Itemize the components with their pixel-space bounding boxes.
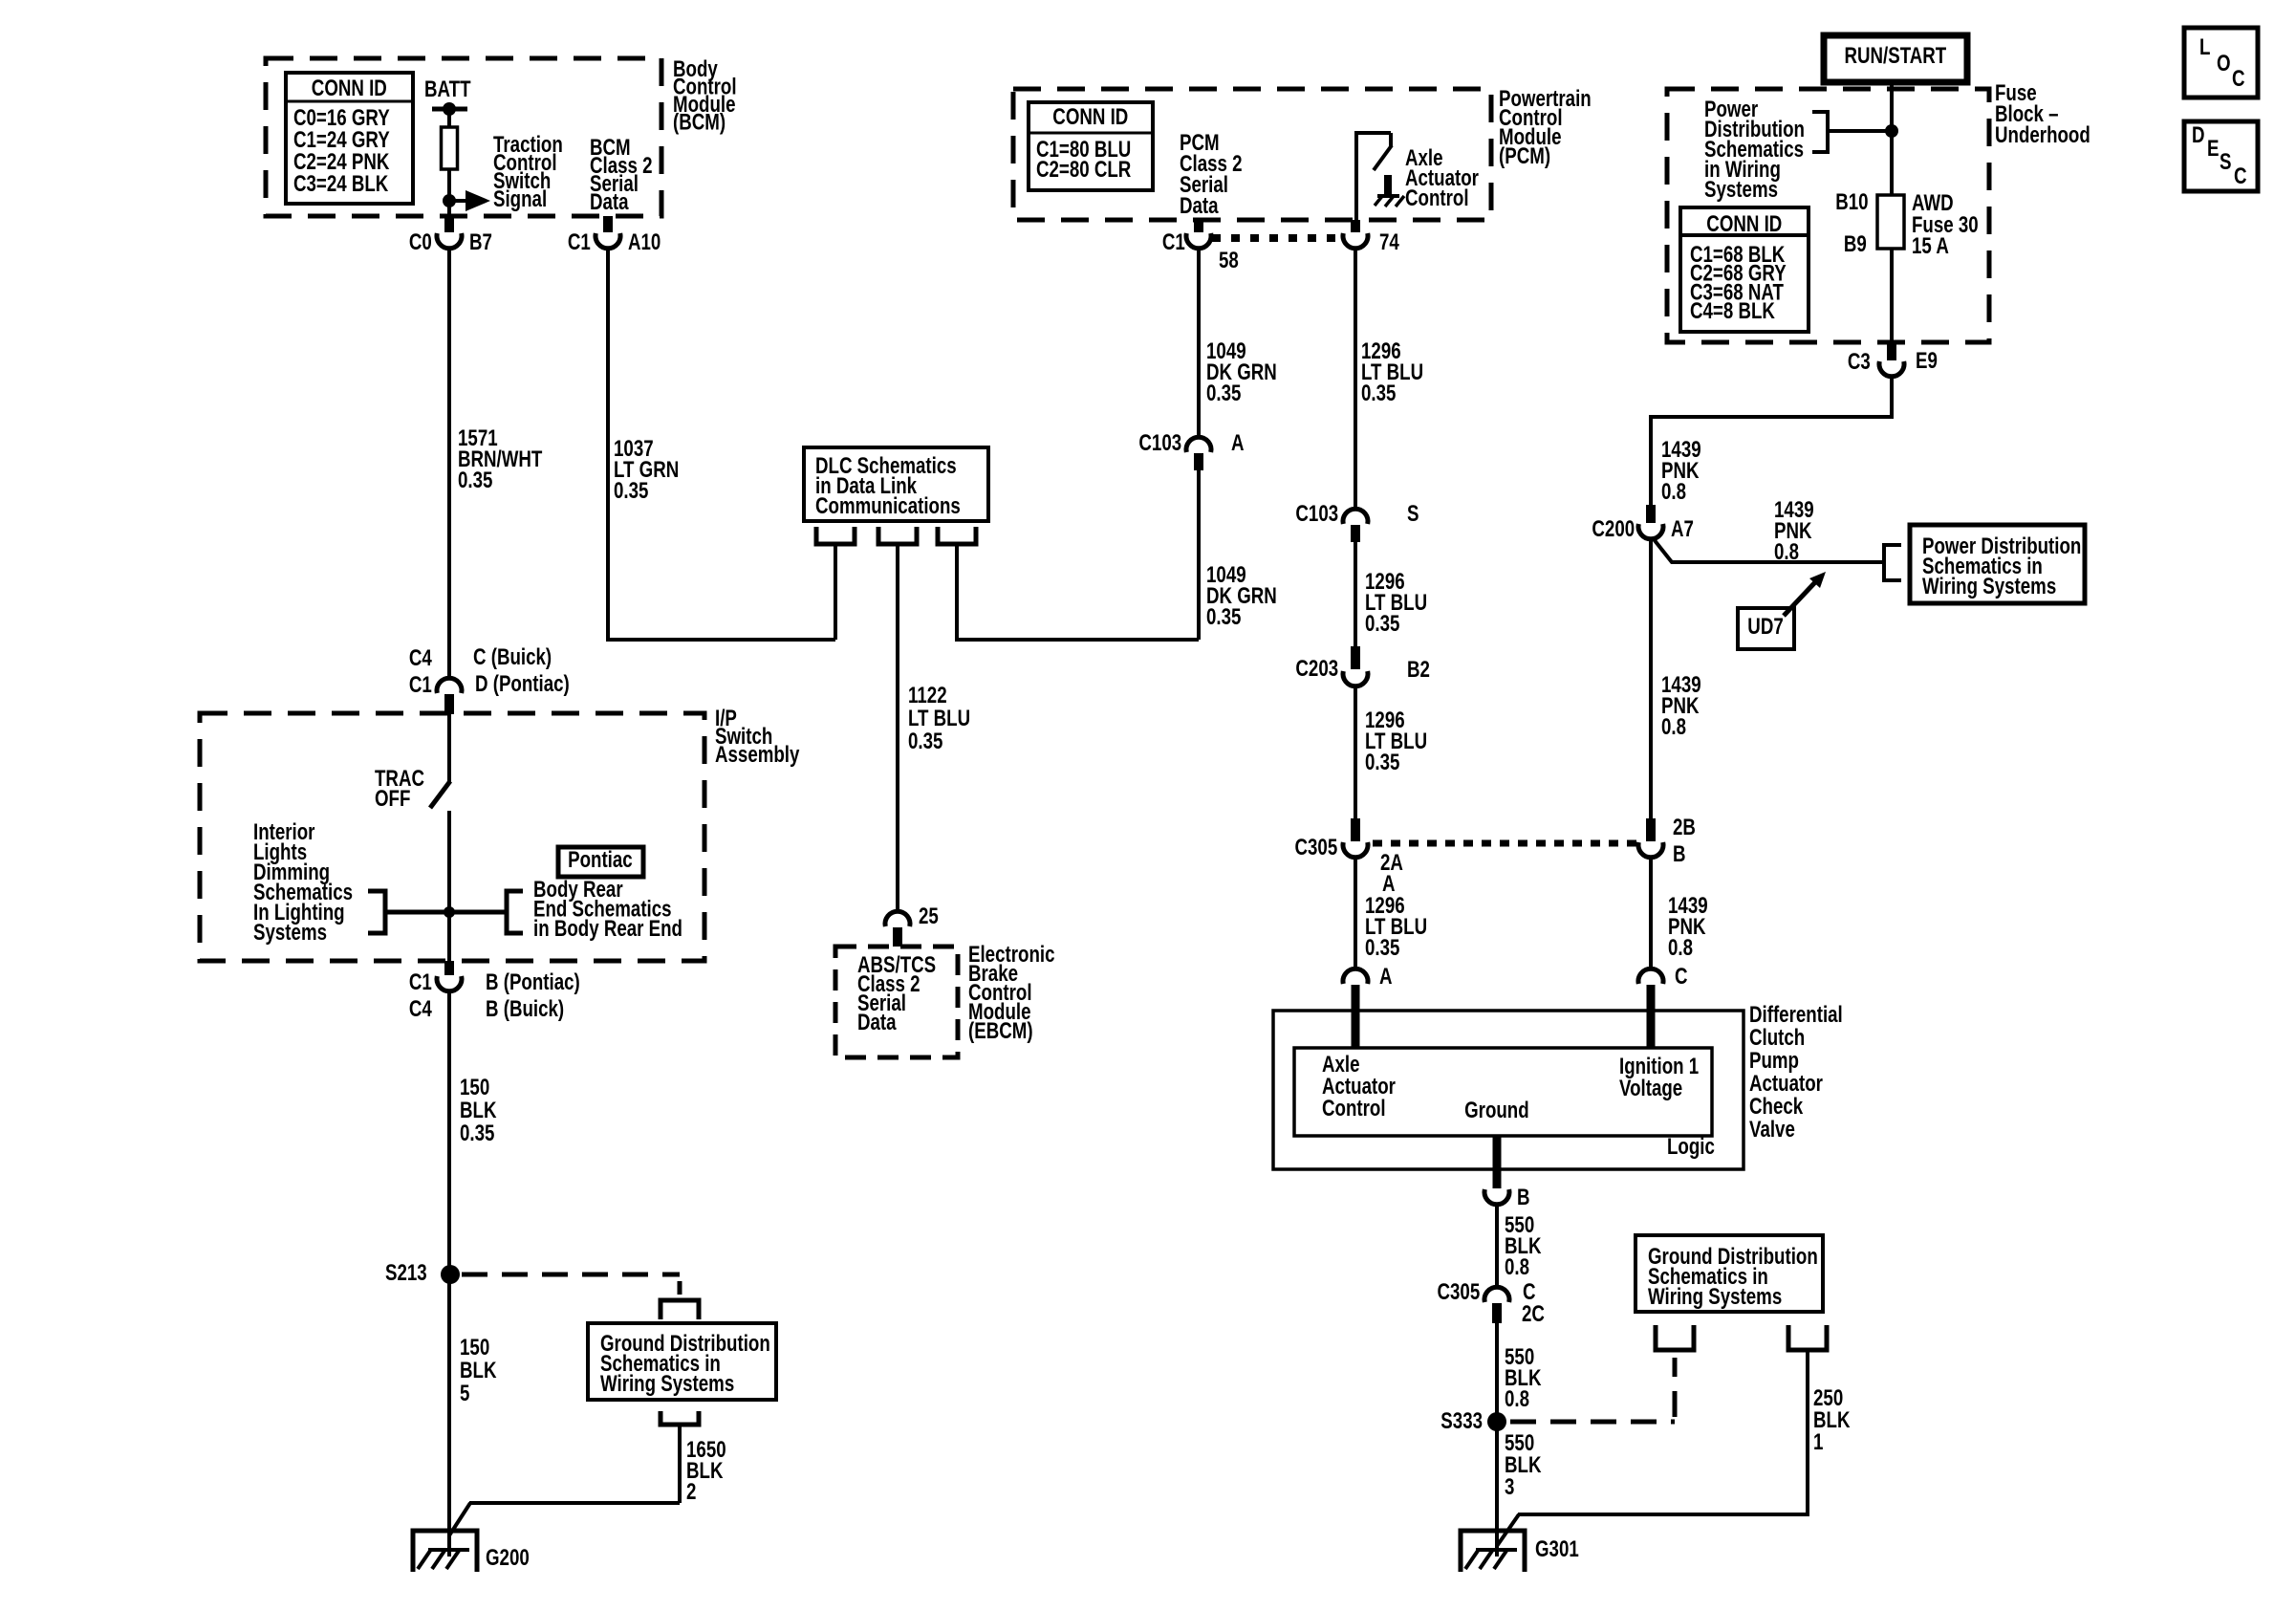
- svg-text:RUN/START: RUN/START: [1845, 43, 1947, 69]
- svg-text:0.8: 0.8: [1661, 714, 1686, 740]
- svg-text:A: A: [1379, 964, 1393, 990]
- svg-text:L: L: [2199, 34, 2210, 60]
- svg-text:Pontiac: Pontiac: [568, 847, 633, 873]
- fuse: AWD Fuse 30 15 A: [1877, 195, 1904, 249]
- svg-text:C0: C0: [409, 229, 432, 255]
- dashed wire: S213 to Ground Distribution reference: [462, 1273, 680, 1277]
- svg-text:Wiring Systems: Wiring Systems: [1922, 574, 2056, 599]
- svg-text:Pump: Pump: [1749, 1048, 1799, 1074]
- wire 1037 LT GRN: C1/A10 to DLC bracket: [608, 248, 835, 640]
- module box: Fuse Block - Underhood dashed outline: [1667, 89, 1989, 342]
- svg-text:C4: C4: [409, 996, 432, 1022]
- wire: RUN/START into fuse block: [1890, 82, 1894, 195]
- svg-text:B: B: [1517, 1185, 1530, 1210]
- connector C0/B7 at BCM: [444, 216, 454, 232]
- svg-text:G200: G200: [486, 1545, 530, 1571]
- wire 1439 PNK: C3/E9 to C200: [1651, 376, 1892, 507]
- svg-text:5: 5: [460, 1381, 469, 1406]
- dotted tie between C1 and 74: [1212, 234, 1342, 242]
- svg-text:2C: 2C: [1522, 1301, 1545, 1327]
- DLC bracket pin 2: [878, 527, 917, 544]
- svg-text:Voltage: Voltage: [1619, 1076, 1682, 1101]
- svg-text:0.35: 0.35: [460, 1121, 494, 1146]
- svg-text:C: C: [1675, 964, 1688, 990]
- svg-text:B9: B9: [1844, 231, 1867, 257]
- svg-text:C203: C203: [1295, 656, 1338, 682]
- connector 2B/B: [1646, 818, 1656, 841]
- connector C305 2A/A: [1351, 818, 1360, 841]
- module box: Powertrain Control Module (PCM) dashed outline: [1013, 89, 1491, 220]
- svg-text:CONN ID: CONN ID: [312, 76, 387, 101]
- svg-text:0.35: 0.35: [1361, 381, 1396, 406]
- connector C203 B2: [1351, 646, 1360, 669]
- connector 74 at PCM: [1351, 220, 1360, 232]
- svg-text:S333: S333: [1440, 1408, 1483, 1434]
- svg-text:D (Pontiac): D (Pontiac): [475, 671, 570, 697]
- wire into TRAC OFF switch: [447, 714, 451, 782]
- wire 1049 DK GRN: C1/58 to C103 A: [1197, 248, 1201, 436]
- bracket to Interior Lights Dimming schematics: [368, 891, 385, 933]
- svg-text:B7: B7: [469, 229, 492, 255]
- wire 1650 BLK 2 to G200: [678, 1425, 682, 1503]
- svg-text:0.8: 0.8: [1668, 935, 1693, 961]
- power feed box: RUN/START: [1824, 35, 1967, 82]
- svg-text:Underhood: Underhood: [1995, 122, 2090, 148]
- wire 1296 LT BLU: C203 to C305: [1354, 686, 1357, 820]
- svg-text:Logic: Logic: [1667, 1134, 1715, 1160]
- svg-text:BLK: BLK: [460, 1098, 497, 1123]
- arrow from UD7 to wire: [1784, 582, 1815, 616]
- svg-text:B (Buick): B (Buick): [486, 996, 564, 1022]
- bracket below right Ground Distribution box (left pin): [1656, 1325, 1694, 1350]
- svg-text:D: D: [2192, 122, 2205, 148]
- svg-text:15 A: 15 A: [1912, 233, 1949, 259]
- connector 25 at EBCM: [885, 911, 910, 926]
- svg-text:0.35: 0.35: [1365, 611, 1399, 637]
- bracket to Power Distribution box: [1884, 545, 1901, 580]
- svg-text:C: C: [2232, 66, 2245, 92]
- module box: Body Control Module (BCM) dashed outline: [266, 58, 661, 216]
- wire 1439 PNK: C200 to 2B: [1649, 539, 1653, 820]
- callout UD7: [1738, 608, 1794, 649]
- connector C1/58 at PCM: [1194, 220, 1203, 232]
- dashed wire: S333 to Ground Distribution reference: [1510, 1420, 1675, 1425]
- legend box DESC: [2184, 121, 2258, 191]
- wire 150 BLK: C1/C4 down to S213: [447, 991, 451, 1274]
- DLC bracket pin 1: [816, 527, 855, 544]
- svg-text:C103: C103: [1138, 430, 1181, 456]
- svg-text:58: 58: [1219, 248, 1239, 273]
- connector C1/A10 at BCM: [603, 216, 613, 232]
- svg-text:C4=8 BLK: C4=8 BLK: [1690, 298, 1775, 324]
- svg-text:0.8: 0.8: [1505, 1386, 1529, 1412]
- svg-text:C2=80 CLR: C2=80 CLR: [1036, 157, 1132, 183]
- svg-text:2B: 2B: [1673, 815, 1696, 840]
- svg-text:Check: Check: [1749, 1094, 1803, 1120]
- BCM CONN ID table: [286, 73, 413, 204]
- wire 550 BLK 3: S333 to G301: [1495, 1422, 1499, 1557]
- connector C3/E9 at fuse block: [1887, 342, 1896, 360]
- wire 1296 LT BLU: 74 to C103 S: [1354, 248, 1357, 508]
- svg-text:0.35: 0.35: [1206, 604, 1241, 630]
- svg-text:74: 74: [1379, 229, 1399, 255]
- svg-text:B (Pontiac): B (Pontiac): [486, 969, 580, 995]
- connector C1/C4 (B Pontiac / B Buick): [444, 961, 454, 975]
- bracket to Body Rear End schematics: [507, 891, 523, 933]
- svg-text:G301: G301: [1535, 1536, 1579, 1562]
- connector B below valve: [1493, 1136, 1502, 1188]
- svg-text:(PCM): (PCM): [1499, 143, 1550, 169]
- svg-text:Valve: Valve: [1749, 1117, 1795, 1143]
- svg-text:BATT: BATT: [424, 76, 471, 102]
- wire: BATT to fuse element: [447, 109, 451, 128]
- svg-text:C (Buick): C (Buick): [473, 644, 552, 670]
- splice S213: [441, 1265, 460, 1284]
- svg-text:Wiring Systems: Wiring Systems: [1648, 1284, 1782, 1310]
- svg-text:150: 150: [460, 1075, 489, 1100]
- dashed tie between C305 and 2B: [1373, 840, 1636, 847]
- svg-text:Signal: Signal: [493, 186, 547, 212]
- wire 550 BLK: B to C305 C: [1495, 1204, 1499, 1285]
- svg-text:C3=24 BLK: C3=24 BLK: [293, 171, 389, 197]
- svg-text:C1: C1: [409, 969, 432, 995]
- BATT node bar and junction dot: [432, 107, 467, 112]
- fuse element inside BCM: [442, 127, 458, 169]
- wire: switch to junction: [447, 811, 451, 962]
- svg-text:0.35: 0.35: [1365, 750, 1399, 775]
- svg-text:150: 150: [460, 1335, 489, 1361]
- wire 1571 BRN/WHT: C0/B7 down to C4/C1: [447, 248, 451, 677]
- wire and bracket to Power Distribution reference: [1828, 129, 1892, 133]
- wire 1296 LT BLU: C103 to C203: [1354, 542, 1357, 648]
- reference box: Ground Distribution Schematics in Wiring Systems (right): [1635, 1235, 1823, 1312]
- svg-text:Wiring Systems: Wiring Systems: [600, 1371, 734, 1397]
- connector C200 A7: [1646, 505, 1656, 523]
- svg-text:Control: Control: [1322, 1096, 1386, 1121]
- wire 1049 DK GRN: DLC bracket 3 to C103: [957, 544, 1199, 640]
- svg-text:Ground: Ground: [1464, 1098, 1529, 1123]
- logic box inside check valve: [1294, 1048, 1712, 1136]
- component box: Differential Clutch Pump Actuator Check Valve (outer): [1273, 1011, 1744, 1169]
- wire 1439 PNK: 2B to valve connector C: [1649, 858, 1653, 968]
- svg-text:C1: C1: [409, 672, 432, 698]
- wire 550 BLK: C305 to S333: [1495, 1323, 1499, 1422]
- svg-text:S: S: [2220, 149, 2231, 175]
- svg-text:C1: C1: [1162, 229, 1185, 255]
- svg-text:0.8: 0.8: [1661, 479, 1686, 505]
- connector A at check valve: [1343, 969, 1368, 984]
- svg-text:Systems: Systems: [253, 920, 327, 946]
- reference box: DLC Schematics in Data Link Communications: [804, 447, 988, 521]
- svg-text:A7: A7: [1671, 516, 1694, 542]
- wire 250 BLK 1 to G301: [1518, 1350, 1808, 1514]
- svg-text:CONN ID: CONN ID: [1706, 211, 1782, 237]
- ground G301: [1461, 1531, 1525, 1572]
- wire 150 BLK 5: S213 to G200: [447, 1274, 451, 1557]
- svg-text:0.35: 0.35: [908, 729, 942, 754]
- svg-text:in Body Rear End: in Body Rear End: [533, 916, 682, 942]
- Pontiac tag box: [558, 847, 643, 877]
- junction cross line in I/P assembly: [385, 910, 507, 915]
- junction dot to power distribution reference: [1885, 124, 1898, 138]
- connector C103 S: [1343, 509, 1368, 524]
- svg-text:LT BLU: LT BLU: [908, 706, 970, 731]
- module box: ABS/TCS dashed outline (EBCM): [835, 947, 958, 1057]
- wire 1439 PNK: C200 branch to Power Distribution reference: [1654, 539, 1884, 562]
- connector C103 A: [1186, 437, 1211, 452]
- svg-text:Data: Data: [590, 189, 629, 215]
- wire 1122 LT BLU: DLC to EBCM: [896, 544, 899, 909]
- bracket above Ground Distribution box: [661, 1300, 699, 1319]
- svg-text:3: 3: [1505, 1474, 1514, 1500]
- svg-text:UD7: UD7: [1747, 614, 1783, 640]
- bracket below right Ground Distribution box (right pin): [1788, 1325, 1827, 1350]
- svg-text:A: A: [1231, 430, 1245, 456]
- svg-text:A10: A10: [628, 229, 661, 255]
- connector C4/C1 (C Buick / D Pontiac): [437, 678, 462, 693]
- PCM CONN ID table: [1029, 102, 1153, 190]
- wire: fuse to C3/E9: [1890, 249, 1894, 342]
- svg-text:Differential: Differential: [1749, 1002, 1843, 1028]
- switch: axle actuator control inside PCM: [1356, 133, 1391, 220]
- module box: I/P Switch Assembly dashed outline: [200, 713, 704, 961]
- svg-text:S: S: [1407, 501, 1419, 527]
- svg-text:0.35: 0.35: [614, 478, 648, 504]
- svg-text:E9: E9: [1916, 348, 1938, 374]
- svg-text:Actuator: Actuator: [1749, 1071, 1823, 1097]
- svg-text:(BCM): (BCM): [673, 109, 726, 135]
- wire: fuse to signal junction: [447, 169, 451, 216]
- svg-text:C3: C3: [1848, 349, 1871, 375]
- svg-text:Clutch: Clutch: [1749, 1025, 1805, 1051]
- svg-text:O: O: [2217, 51, 2231, 76]
- bracket below Ground Distribution box: [661, 1411, 699, 1425]
- reference box: Ground Distribution Schematics in Wiring Systems (left): [588, 1323, 776, 1400]
- wire 1296 LT BLU: C305 to valve connector A: [1354, 858, 1357, 968]
- splice S333: [1487, 1412, 1506, 1431]
- svg-text:BLK: BLK: [460, 1358, 497, 1383]
- ground G200: [413, 1531, 477, 1572]
- svg-text:Communications: Communications: [815, 493, 961, 519]
- svg-text:B2: B2: [1407, 657, 1430, 683]
- svg-text:C: C: [2234, 163, 2247, 189]
- svg-text:S213: S213: [385, 1260, 427, 1286]
- svg-text:C305: C305: [1295, 835, 1338, 860]
- svg-text:C200: C200: [1592, 516, 1635, 542]
- svg-text:0.35: 0.35: [1365, 935, 1399, 961]
- reference box: Power Distribution Schematics in Wiring Systems: [1910, 525, 2085, 603]
- junction dot: traction control switch signal: [443, 194, 456, 207]
- svg-text:Systems: Systems: [1704, 177, 1778, 203]
- svg-text:Control: Control: [1405, 185, 1469, 211]
- svg-text:C4: C4: [409, 645, 432, 671]
- svg-text:C305: C305: [1438, 1279, 1481, 1305]
- legend box LOC: [2184, 28, 2258, 98]
- wire: DLC bracket 1 down: [834, 544, 837, 640]
- svg-text:B: B: [1673, 841, 1686, 867]
- svg-text:2: 2: [686, 1479, 696, 1505]
- arrow: Traction Control Switch Signal: [449, 199, 467, 203]
- fuse block CONN ID table: [1680, 207, 1809, 332]
- svg-text:Data: Data: [1180, 193, 1219, 219]
- svg-text:CONN ID: CONN ID: [1052, 104, 1128, 130]
- connector C at check valve: [1638, 969, 1663, 984]
- svg-text:Assembly: Assembly: [715, 742, 799, 768]
- svg-text:B10: B10: [1835, 189, 1868, 215]
- svg-text:0.35: 0.35: [458, 468, 492, 493]
- svg-text:1122: 1122: [908, 683, 947, 708]
- connector C305 C/2C: [1484, 1287, 1509, 1302]
- wire 1049 DK GRN: C103 to DLC junction: [1197, 468, 1201, 640]
- DLC bracket pin 3: [938, 527, 976, 544]
- svg-text:1: 1: [1813, 1429, 1823, 1455]
- svg-text:C103: C103: [1295, 501, 1338, 527]
- svg-text:(EBCM): (EBCM): [968, 1018, 1033, 1044]
- svg-text:E: E: [2207, 136, 2219, 162]
- svg-text:0.8: 0.8: [1774, 539, 1799, 565]
- svg-text:OFF: OFF: [375, 786, 410, 812]
- svg-text:0.35: 0.35: [1206, 381, 1241, 406]
- svg-text:25: 25: [919, 903, 939, 929]
- svg-text:C1: C1: [568, 229, 591, 255]
- svg-text:0.8: 0.8: [1505, 1254, 1529, 1280]
- svg-text:Data: Data: [857, 1010, 897, 1035]
